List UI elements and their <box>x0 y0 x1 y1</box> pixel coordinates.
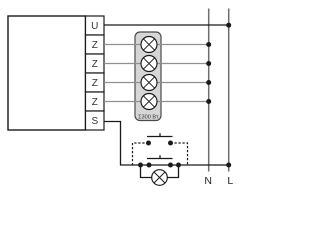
svg-text:U: U <box>91 21 98 32</box>
svg-text:Z: Z <box>92 78 98 89</box>
svg-text:Σ300 Вт: Σ300 Вт <box>138 115 159 121</box>
svg-text:S: S <box>91 116 98 127</box>
svg-text:Z: Z <box>92 40 98 51</box>
svg-text:N: N <box>204 175 212 187</box>
svg-text:Z: Z <box>92 59 98 70</box>
svg-text:L: L <box>227 175 233 187</box>
svg-text:Z: Z <box>92 97 98 108</box>
